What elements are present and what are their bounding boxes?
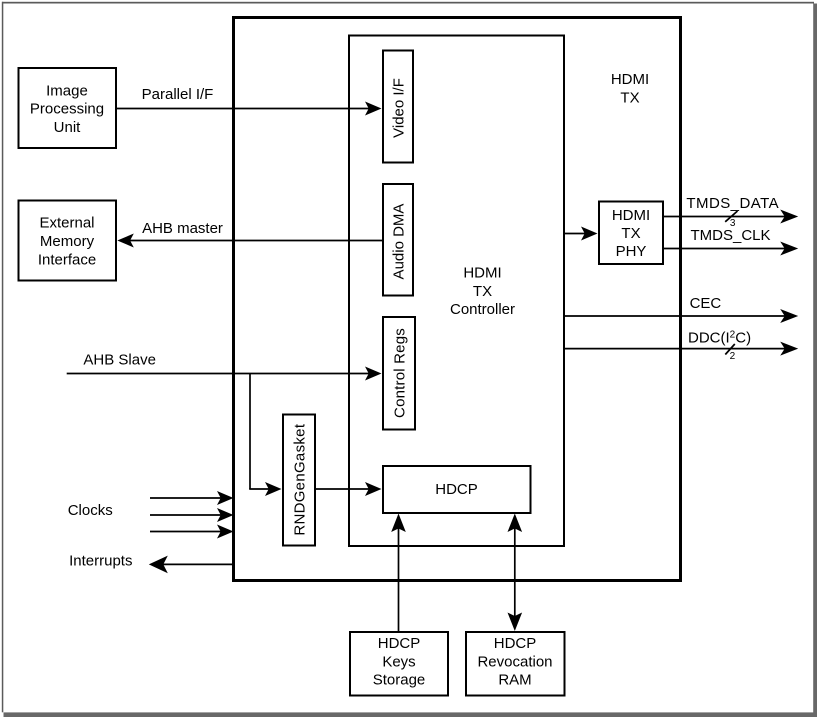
wire TMDS_CLK	[664, 248, 789, 250]
svg-text:HDCP: HDCP	[494, 635, 537, 652]
wire clock line 2	[150, 514, 224, 516]
arrowhead Interrupts	[149, 556, 168, 574]
svg-text:PHY: PHY	[616, 243, 647, 260]
frame top border	[2, 2, 814, 4]
svg-text:TMDS_DATA: TMDS_DATA	[686, 195, 779, 212]
arrowhead DDC	[780, 342, 798, 356]
wire clock line 3	[150, 531, 224, 533]
svg-text:HDMI: HDMI	[611, 71, 649, 88]
svg-text:Audio DMA: Audio DMA	[391, 204, 408, 280]
block HDCP	[383, 466, 531, 513]
arrowhead Parallel I/F into Video I/F	[365, 102, 382, 116]
svg-text:Memory: Memory	[40, 233, 95, 250]
block Image Processing Unit	[19, 68, 117, 148]
arrowhead TMDS_DATA	[780, 210, 798, 224]
frame left border	[2, 2, 4, 713]
arrowhead CEC	[780, 309, 798, 323]
wire DDC	[565, 348, 789, 350]
wire Parallel I/F	[117, 108, 373, 110]
wire controller to HDMI TX PHY	[565, 233, 588, 235]
block HDMI TX PHY	[599, 202, 663, 265]
svg-text:HDCP: HDCP	[378, 635, 421, 652]
svg-text:Keys: Keys	[382, 653, 415, 670]
svg-text:TX: TX	[473, 283, 492, 300]
arrowhead AHB Slave into Control Regs	[365, 367, 382, 381]
svg-text:Storage: Storage	[373, 672, 426, 689]
block HDCP Revocation RAM	[466, 632, 565, 696]
svg-text:Revocation: Revocation	[477, 653, 552, 670]
svg-text:RNDGenGasket: RNDGenGasket	[292, 423, 309, 536]
block Video I/F	[383, 51, 413, 163]
svg-text:Controller: Controller	[450, 301, 515, 318]
svg-text:Control Regs: Control Regs	[392, 328, 409, 418]
block Control Regs	[383, 317, 415, 430]
block RNDGenGasket	[283, 415, 315, 546]
arrowhead clock 1	[217, 491, 234, 505]
svg-text:AHB Slave: AHB Slave	[83, 351, 156, 368]
arrowhead AHB master into External Memory Interface	[117, 234, 134, 248]
arrowhead up into HDCP	[391, 514, 406, 533]
block Audio DMA	[383, 184, 413, 296]
svg-text:TX: TX	[620, 89, 639, 106]
bus-width slash DDC	[725, 344, 735, 355]
svg-text:2: 2	[730, 351, 736, 362]
wire AHB master	[125, 240, 383, 242]
svg-text:AHB master: AHB master	[142, 220, 223, 237]
svg-text:HDMI: HDMI	[612, 207, 650, 224]
wire CEC	[565, 315, 789, 317]
wire TMDS_DATA	[664, 216, 789, 218]
svg-text:CEC: CEC	[690, 295, 722, 312]
wire RNDGenGasket to HDCP	[316, 488, 372, 490]
arrowhead into HDMI TX PHY	[581, 227, 598, 241]
svg-text:TMDS_CLK: TMDS_CLK	[691, 227, 771, 244]
svg-text:Video I/F: Video I/F	[391, 78, 408, 138]
svg-text:Image: Image	[46, 82, 88, 99]
svg-text:Interrupts: Interrupts	[69, 553, 132, 570]
wire AHB Slave branch vertical	[249, 374, 251, 490]
svg-text:RAM: RAM	[498, 672, 531, 689]
svg-text:Parallel I/F: Parallel I/F	[142, 86, 214, 103]
arrowhead clock 2	[217, 508, 234, 522]
arrowhead clock 3	[217, 525, 234, 539]
wire branch to RNDGenGasket	[249, 488, 272, 490]
arrowhead TMDS_CLK	[780, 242, 798, 256]
frame bottom shadow border	[4, 712, 817, 717]
svg-text:Clocks: Clocks	[68, 502, 113, 519]
svg-text:Processing: Processing	[30, 101, 104, 118]
wire clock line 1	[150, 497, 224, 499]
wire HDCP to HDCP Revocation RAM	[514, 523, 516, 622]
wire HDCP Keys Storage to HDCP	[398, 523, 400, 631]
svg-text:TX: TX	[621, 225, 640, 242]
svg-text:HDMI: HDMI	[463, 265, 501, 282]
frame right shadow border	[813, 4, 817, 717]
svg-text:DDC(I2C): DDC(I2C)	[688, 330, 751, 347]
svg-text:External: External	[39, 215, 94, 232]
block HDMI TX (outer enclosure)	[234, 18, 681, 581]
arrowhead down into HDCP Revocation RAM	[508, 613, 523, 632]
svg-text:Interface: Interface	[38, 251, 96, 268]
block HDMI TX Controller (inner enclosure)	[349, 36, 564, 547]
wire Interrupts	[160, 563, 234, 565]
svg-text:Unit: Unit	[54, 119, 82, 136]
wire AHB Slave	[67, 373, 372, 375]
arrowhead up into HDCP (revocation line)	[508, 514, 523, 533]
block External Memory Interface	[19, 201, 117, 281]
block HDCP Keys Storage	[350, 632, 448, 696]
arrowhead into HDCP	[365, 482, 382, 496]
bus-width slash TMDS_DATA	[725, 211, 737, 222]
arrowhead into RNDGenGasket	[265, 482, 282, 496]
svg-text:HDCP: HDCP	[435, 481, 478, 498]
